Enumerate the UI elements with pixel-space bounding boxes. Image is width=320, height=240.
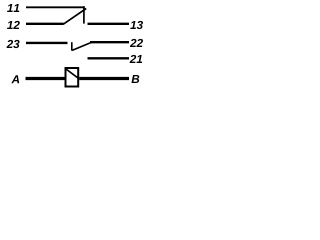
terminal label 22: [130, 39, 143, 47]
contact bar (fixed contact) near 23: [71, 42, 73, 51]
coil diagonal mark: [66, 69, 78, 78]
terminal label 21: [130, 55, 143, 63]
wire: terminal 23 lead: [26, 42, 68, 44]
wire: terminal 13 lead: [88, 23, 130, 25]
relay coil rectangle: [66, 68, 79, 87]
terminal label 13: [130, 21, 143, 29]
terminal label 11: [7, 4, 19, 12]
wire: terminal 11 lead: [26, 6, 85, 8]
movable contact lever (to 22): [72, 42, 92, 50]
terminal label B: [131, 75, 139, 83]
contact bar (fixed contact) at end of 11: [83, 6, 85, 23]
movable contact lever (12 to 11): [63, 9, 86, 25]
terminal label A: [11, 75, 19, 83]
terminal label 23: [7, 40, 20, 48]
terminal label 12: [7, 21, 20, 29]
wire: terminal 22 lead: [90, 41, 129, 43]
wire: coil lead A: [26, 77, 65, 80]
wire: terminal 12 lead: [26, 23, 64, 25]
wire: coil lead B: [79, 77, 129, 80]
wire: terminal 21 lead: [88, 57, 130, 59]
